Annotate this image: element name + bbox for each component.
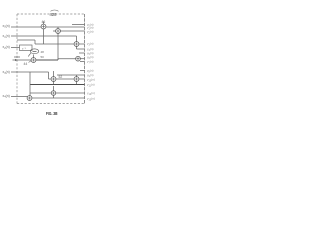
- svg-text:y11(n): y11(n): [87, 83, 95, 88]
- svg-text:y10(n): y10(n): [87, 78, 95, 83]
- svg-text:x4(n): x4(n): [3, 94, 10, 99]
- svg-text:z⁻¹: z⁻¹: [22, 47, 26, 51]
- svg-text:52: 52: [59, 75, 63, 79]
- svg-text:y13(n): y13(n): [87, 97, 95, 102]
- svg-text:y2(n): y2(n): [87, 30, 94, 35]
- svg-text:x3(n): x3(n): [3, 70, 10, 75]
- svg-text:46: 46: [42, 20, 46, 24]
- svg-text:y3(n): y3(n): [87, 42, 94, 47]
- svg-text:x1(n): x1(n): [3, 34, 10, 39]
- svg-text:44: 44: [24, 62, 28, 66]
- svg-text:y12(n): y12(n): [87, 91, 95, 96]
- svg-text:x0(n): x0(n): [3, 24, 10, 29]
- svg-text:x2(n): x2(n): [3, 45, 10, 50]
- svg-text:48: 48: [41, 50, 45, 54]
- svg-text:FIG. 3B: FIG. 3B: [46, 111, 58, 116]
- svg-text:428: 428: [50, 12, 58, 17]
- svg-text:y7(n): y7(n): [87, 60, 94, 65]
- svg-text:50: 50: [41, 55, 45, 59]
